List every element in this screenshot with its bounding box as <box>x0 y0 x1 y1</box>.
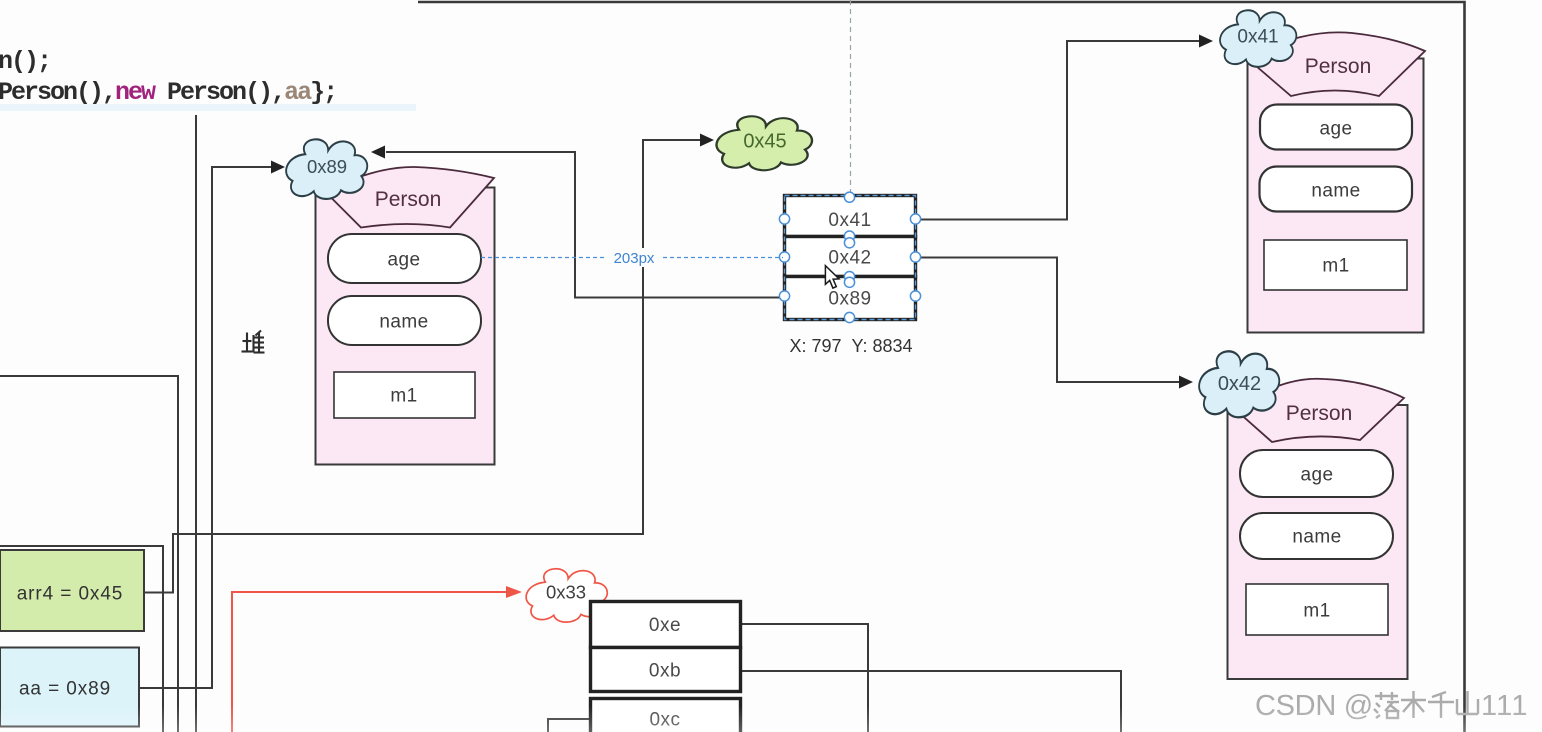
svg-text:0x42: 0x42 <box>1218 373 1261 395</box>
svg-text:0x45: 0x45 <box>743 131 786 153</box>
luo <box>1374 692 1399 718</box>
svg-text:Person: Person <box>1286 402 1353 425</box>
svg-text:0xe: 0xe <box>649 615 681 636</box>
shan <box>1457 691 1478 714</box>
wire stack vertical x196 <box>195 115 197 732</box>
cloud 0x89 <box>286 139 367 199</box>
frame border top/right <box>418 2 1465 732</box>
aa box <box>0 648 139 727</box>
mouse cursor <box>825 266 839 289</box>
dashed guide vertical <box>850 0 852 195</box>
svg-text:age: age <box>1320 119 1353 140</box>
svg-text:203px: 203px <box>614 250 655 267</box>
red wire to cloud 0x33 <box>232 592 508 732</box>
wire arr4 to cloud 0x45 <box>144 140 701 593</box>
svg-text:0xb: 0xb <box>649 661 681 682</box>
heap label 堆 <box>242 331 265 353</box>
measurement 203px <box>481 248 783 267</box>
red arrowhead <box>506 586 522 598</box>
arrowhead to 0x89 <box>271 161 285 174</box>
arr4 box <box>0 550 144 631</box>
address table selected <box>785 196 916 320</box>
bottom fade <box>0 706 1542 732</box>
qian <box>1428 692 1454 718</box>
svg-text:X: 797 Y: 8834: X: 797 Y: 8834 <box>789 336 912 356</box>
person box bottom right <box>1228 379 1408 679</box>
cloud 0x42 <box>1199 351 1279 417</box>
svg-text:m1: m1 <box>1303 601 1330 622</box>
wire 0xc hook <box>548 719 590 732</box>
svg-text:m1: m1 <box>390 386 417 407</box>
arrowhead to 0x45 <box>700 134 714 147</box>
svg-text:0x33: 0x33 <box>546 582 586 603</box>
arrowhead left into 0x89 <box>371 146 385 159</box>
pointer table 0xe 0xb 0xc <box>591 602 741 732</box>
svg-text:0x41: 0x41 <box>1237 27 1278 48</box>
svg-text:age: age <box>1301 465 1334 486</box>
arrowhead to 0x41 <box>1199 35 1213 48</box>
svg-text:name: name <box>379 312 428 333</box>
svg-text:age: age <box>388 250 421 271</box>
wire aa to cloud 0x89 <box>139 167 272 688</box>
svg-text:aa = 0x89: aa = 0x89 <box>19 679 111 700</box>
cloud 0x33 <box>526 569 607 622</box>
person box top right <box>1248 32 1426 332</box>
svg-text:name: name <box>1292 527 1341 548</box>
selection handles <box>779 192 920 323</box>
person box left <box>316 167 495 465</box>
wire stub y546 <box>0 546 163 732</box>
arrowhead to 0x42 <box>1179 376 1193 389</box>
code selection highlight <box>0 104 416 111</box>
svg-text:0x42: 0x42 <box>828 248 871 269</box>
svg-text:name: name <box>1311 181 1360 202</box>
watermark CJK strokes <box>1374 691 1478 718</box>
wire 0xe out <box>740 624 868 732</box>
svg-text:n();: n(); <box>0 47 50 76</box>
cloud 0x41 <box>1220 10 1296 67</box>
svg-text:Person(),new Person(),aa};: Person(),new Person(),aa}; <box>0 78 336 107</box>
wire stub y376 <box>0 376 178 732</box>
svg-text:arr4 = 0x45: arr4 = 0x45 <box>17 584 124 605</box>
svg-text:Person: Person <box>1305 55 1372 78</box>
svg-text:0x89: 0x89 <box>307 156 347 177</box>
svg-text:Person: Person <box>375 188 442 211</box>
svg-text:m1: m1 <box>1322 256 1349 277</box>
watermark <box>1255 690 1373 722</box>
mu <box>1401 691 1426 718</box>
cloud 0x45 <box>717 116 812 170</box>
wire table row 0x41 to cloud 0x41 <box>915 41 1200 220</box>
svg-text:0x89: 0x89 <box>828 289 871 310</box>
wire table row 0x89 to cloud 0x89 <box>386 152 784 298</box>
wire 0xb out <box>741 671 1121 732</box>
wire table row 0x42 to cloud 0x42 <box>915 258 1180 383</box>
svg-text:0x41: 0x41 <box>828 210 871 231</box>
